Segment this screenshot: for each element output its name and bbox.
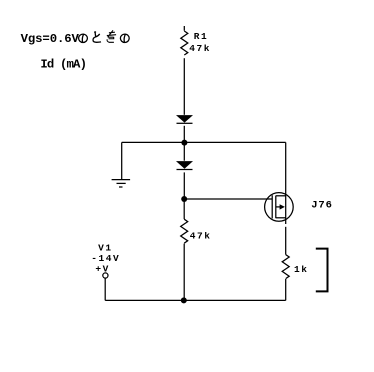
- resistor R2 zigzag 47k: [181, 219, 188, 243]
- wire D2 to junction B: [183, 172, 185, 199]
- resistor R2 lead: [183, 199, 185, 219]
- svg-text:Id (mA): Id (mA): [40, 58, 86, 72]
- svg-text:J76: J76: [311, 200, 333, 212]
- node B junction dot: [181, 196, 187, 202]
- diode D1: [176, 115, 193, 123]
- svg-text:47k: 47k: [190, 230, 212, 241]
- annotation hiragana no-to-ki-no: [79, 30, 130, 42]
- wire to ground: [121, 142, 123, 179]
- svg-text:47k: 47k: [189, 43, 211, 54]
- svg-text:V1: V1: [98, 242, 113, 253]
- bracket load marker: [316, 249, 328, 292]
- node C junction dot: [181, 297, 187, 303]
- svg-text:-14V: -14V: [91, 253, 120, 264]
- resistor R3 zigzag 1k: [282, 255, 289, 279]
- resistor R1 zigzag: [181, 31, 188, 55]
- svg-text:Vgs=0.6V: Vgs=0.6V: [21, 32, 80, 46]
- wire D1 to junction A: [183, 126, 185, 143]
- wire bottom H3: [105, 299, 286, 301]
- svg-text:R1: R1: [194, 31, 209, 42]
- ground: [112, 180, 131, 187]
- node A junction dot: [181, 140, 187, 146]
- source V1 terminal node circle: [103, 273, 108, 278]
- wire R3 to bottom: [285, 279, 287, 300]
- wire R1 to D1: [183, 58, 185, 115]
- transistor Q1 J76: [265, 193, 294, 222]
- wire gate H2: [184, 198, 272, 200]
- resistor R1 top stub: [183, 26, 185, 31]
- wire junction A to D2: [183, 142, 185, 160]
- wire V1 to bottom: [104, 278, 106, 300]
- wire R2 to bottom: [183, 244, 185, 301]
- wire horizontal H1: [122, 141, 286, 143]
- wire source to R3: [285, 227, 287, 255]
- svg-text:+V: +V: [95, 264, 110, 275]
- wire right rail (drain side): [285, 142, 287, 224]
- diode D2: [176, 161, 193, 169]
- svg-text:1k: 1k: [294, 264, 309, 275]
